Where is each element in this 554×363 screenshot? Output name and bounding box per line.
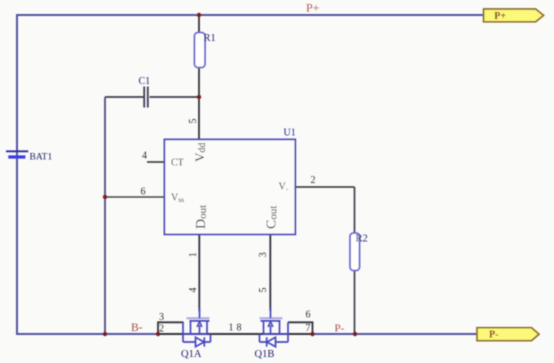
wire top rail [17, 14, 484, 16]
svg-text:5: 5 [258, 288, 269, 293]
wire Cout column [269, 234, 271, 311]
pin name Vdd [192, 143, 208, 162]
wire pin 6/7 rectangle right of Q1B [288, 322, 313, 334]
svg-text:P-: P- [489, 329, 498, 340]
svg-text:3: 3 [159, 312, 164, 323]
svg-text:8: 8 [237, 323, 242, 334]
junction B- [156, 332, 160, 336]
svg-text:R1: R1 [204, 33, 216, 44]
transistor Q1B [260, 308, 289, 347]
svg-text:1: 1 [188, 252, 199, 257]
svg-text:Q1B: Q1B [255, 349, 275, 360]
svg-text:6: 6 [306, 310, 311, 321]
junction P- left [310, 332, 314, 336]
svg-text:CT: CT [171, 158, 184, 169]
pin number 1 (Dout) rotated [188, 252, 199, 257]
svg-text:C1: C1 [139, 76, 151, 87]
wire C1 horizontal [105, 96, 199, 98]
pin number 5 (Vdd) rotated [188, 119, 199, 124]
svg-text:4: 4 [188, 288, 199, 293]
junction left vertical / bottom rail [103, 332, 107, 336]
svg-text:Vss: Vss [171, 193, 184, 205]
port P+ [484, 9, 544, 22]
svg-text:4: 4 [142, 151, 147, 162]
wire V- to R2 vertical [354, 187, 356, 334]
wire Vdd column R1 to chip [198, 15, 200, 139]
wire bottom rail [16, 333, 477, 335]
transistor Q1A [183, 308, 211, 347]
op-amp U1 body [164, 139, 295, 234]
svg-text:7: 7 [306, 323, 311, 334]
capacitor C1 [144, 87, 148, 108]
pin number 4 (Q1A gate) rotated [188, 288, 199, 293]
junction Vss [103, 195, 107, 199]
wire Vss pin 6 stub [105, 196, 164, 198]
junction C1/Vdd [197, 95, 201, 99]
pin number 3 (Cout) rotated [258, 252, 269, 257]
battery BAT1 [6, 150, 28, 152]
svg-text:3: 3 [258, 252, 269, 257]
svg-text:B-: B- [131, 322, 143, 334]
svg-text:Dout: Dout [194, 205, 209, 229]
port P- [477, 328, 539, 341]
svg-text:U1: U1 [284, 128, 296, 139]
svg-text:6: 6 [141, 187, 146, 198]
junction R2 / bottom rail [353, 332, 357, 336]
wire C1 left vertical [104, 97, 106, 334]
pin CT stub [147, 161, 164, 163]
svg-text:Cout: Cout [265, 206, 280, 229]
wire left rail [16, 14, 18, 334]
wire pin 2/3 rectangle left of Q1A [158, 322, 184, 334]
pin number 5 (Q1B gate) rotated [258, 288, 269, 293]
svg-text:BAT1: BAT1 [30, 153, 53, 163]
pin name Dout [194, 205, 209, 229]
wire bottom rail dark middle segment [158, 333, 313, 335]
svg-text:P+: P+ [494, 11, 506, 22]
pin name Cout [265, 206, 280, 229]
svg-text:P+: P+ [306, 1, 320, 15]
svg-text:5: 5 [188, 119, 199, 124]
resistor R2 [350, 233, 360, 271]
svg-text:2: 2 [311, 175, 316, 186]
svg-text:Q1A: Q1A [181, 349, 202, 360]
svg-text:P-: P- [335, 323, 345, 335]
resistor R1 [195, 33, 206, 68]
svg-text:1: 1 [229, 323, 234, 334]
pin V- stub [295, 186, 354, 188]
junction top R1 [197, 13, 201, 17]
svg-text:R2: R2 [356, 234, 368, 245]
wire Dout column [198, 234, 200, 311]
